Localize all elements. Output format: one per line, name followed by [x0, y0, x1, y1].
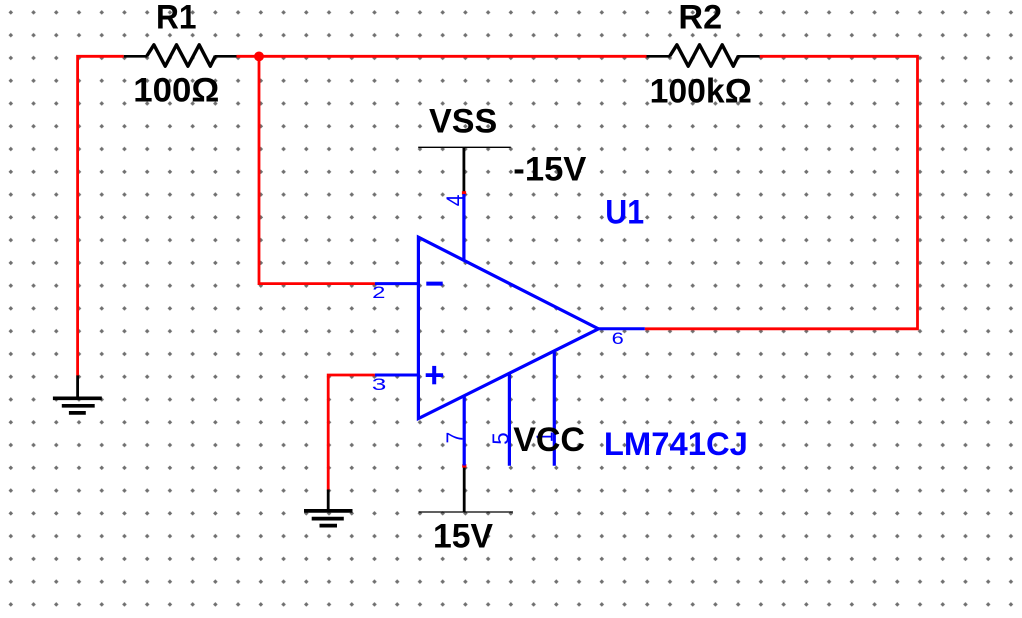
wire: junction down and right to inverting input pin 2 [259, 56, 375, 283]
svg-text:R2: R2 [678, 0, 722, 36]
op-amp pin 5 stub [508, 374, 511, 466]
wire: pin 7 to VCC rail (black) [463, 466, 466, 512]
svg-text:-15V: -15V [513, 150, 586, 188]
wire end dot pin 7 [462, 464, 466, 467]
ground 2 bar 1 [304, 509, 353, 513]
svg-text:100kΩ: 100kΩ [650, 73, 752, 111]
ground 2 (below non-inverting input) stem [327, 490, 330, 510]
svg-text:2: 2 [372, 283, 385, 302]
op-amp pin 3 stub [375, 374, 419, 377]
resistor R1 left lead [124, 55, 148, 58]
svg-text:VCC: VCC [513, 421, 585, 459]
VCC power rail bar [419, 511, 514, 513]
svg-text:3: 3 [372, 375, 387, 394]
op-amp pin 2 stub [375, 282, 419, 285]
wire: R2 right lead, right rail down, feedback to op-amp output [645, 56, 918, 329]
svg-text:VSS: VSS [429, 102, 497, 140]
ground 1 (left) stem [76, 375, 79, 396]
resistor R2 left lead [647, 55, 671, 58]
svg-text:6: 6 [612, 329, 624, 348]
wire: top-left loop, R1 left lead to left vertical rail down to ground [78, 56, 124, 375]
ground 2 bar 2 [312, 517, 344, 521]
wire: R1 right lead through junction to R2 left lead [237, 55, 647, 58]
ground 1 bar 2 [62, 404, 95, 408]
wire: non-inverting input pin 3 to ground 2 [328, 375, 375, 490]
op-amp pin 4 stub [462, 194, 465, 262]
svg-text:7: 7 [441, 432, 467, 444]
op-amp pin 6 output stub [599, 327, 645, 330]
ground 2 bar 3 [320, 524, 338, 528]
svg-text:U1: U1 [605, 193, 644, 231]
resistor R1 zigzag [147, 45, 216, 66]
svg-text:4: 4 [442, 194, 468, 206]
resistor R2 zigzag [670, 45, 739, 66]
svg-text:R1: R1 [156, 0, 197, 36]
op-amp pin 1 stub [553, 351, 556, 466]
junction node dot [254, 52, 264, 62]
op-amp U1 triangle body [418, 237, 598, 418]
plus sign vertical [432, 366, 436, 384]
resistor R2 right lead [738, 55, 760, 58]
VSS power rail bar [418, 146, 511, 148]
op-amp pin 7 stub [463, 396, 466, 466]
svg-text:5: 5 [488, 432, 514, 444]
minus sign [426, 282, 442, 286]
resistor R1 right lead [215, 55, 237, 58]
svg-text:LM741CJ: LM741CJ [604, 426, 748, 462]
wire: VSS rail to pin 4 (black) [462, 147, 465, 193]
wire end dot pin 4 [462, 191, 466, 194]
ground 1 bar 3 [69, 411, 86, 415]
svg-text:15V: 15V [433, 517, 493, 555]
ground 1 bar 1 [53, 396, 102, 400]
plus sign horizontal [426, 373, 443, 377]
svg-text:100Ω: 100Ω [133, 72, 219, 110]
